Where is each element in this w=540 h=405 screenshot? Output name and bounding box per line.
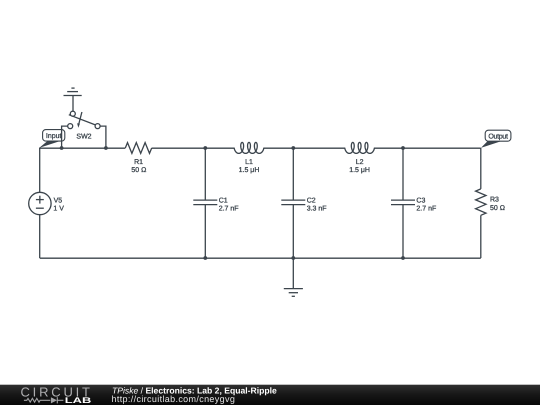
wire SW2 right throw to node xyxy=(100,126,106,148)
svg-text:L2: L2 xyxy=(356,159,364,166)
junction node C1 bottom xyxy=(203,256,207,260)
CircuitLab logo wordmark LAB xyxy=(65,396,92,405)
wire V5 top lead xyxy=(39,148,41,192)
CircuitLab logo resistor-diode glyph xyxy=(24,397,64,403)
svg-text:C1: C1 xyxy=(219,197,228,204)
wire R3 top lead xyxy=(480,148,482,189)
junction node C2 bottom xyxy=(291,256,295,260)
svg-text:R1: R1 xyxy=(134,159,143,166)
svg-text:L1: L1 xyxy=(245,159,253,166)
junction node C3 top xyxy=(401,146,405,150)
wire top rail: R1 to L1 xyxy=(152,147,235,149)
voltage source V5 xyxy=(29,192,65,214)
wire top rail: source node to R1 xyxy=(39,147,125,149)
svg-text:1.5 μH: 1.5 μH xyxy=(349,167,370,174)
svg-text:2.7 nF: 2.7 nF xyxy=(219,206,239,213)
svg-text:50 Ω: 50 Ω xyxy=(490,205,505,212)
capacitor C3 xyxy=(391,197,436,212)
svg-text:1 V: 1 V xyxy=(53,206,64,213)
ground (top, at SW2) xyxy=(64,88,82,111)
svg-text:Input: Input xyxy=(46,133,62,140)
wire top rail: L1 to L2 xyxy=(263,147,345,149)
footer url text xyxy=(112,394,236,404)
svg-text:R3: R3 xyxy=(490,197,499,204)
wire top rail: L2 to output node xyxy=(374,147,481,149)
svg-text:C2: C2 xyxy=(307,197,316,204)
svg-text:V5: V5 xyxy=(54,197,63,204)
switch SW2 xyxy=(68,111,100,140)
wire bottom rail xyxy=(40,257,481,259)
inductor L1 xyxy=(234,142,264,174)
wire C3 bottom lead xyxy=(402,205,404,258)
junction node C3 bottom xyxy=(401,256,405,260)
svg-text:50 Ω: 50 Ω xyxy=(131,167,146,174)
wire C3 top lead xyxy=(402,148,404,200)
footer bar xyxy=(0,385,540,405)
svg-text:LAB: LAB xyxy=(65,396,92,405)
junction node C1 top xyxy=(203,146,207,150)
node Output flag xyxy=(481,130,511,148)
resistor R3 xyxy=(476,189,505,215)
wire C1 bottom lead xyxy=(204,205,206,258)
node Input flag xyxy=(39,130,65,148)
svg-text:http://circuitlab.com/cneygvg: http://circuitlab.com/cneygvg xyxy=(112,394,236,404)
svg-text:3.3 nF: 3.3 nF xyxy=(307,206,327,213)
junction node C2 top xyxy=(291,146,295,150)
svg-text:Output: Output xyxy=(488,133,508,140)
capacitor C1 xyxy=(193,197,238,212)
junction node at SW2 left throw xyxy=(60,146,64,150)
wire C2 top lead xyxy=(292,148,294,200)
svg-text:SW2: SW2 xyxy=(76,134,91,141)
inductor L2 xyxy=(345,142,375,174)
wire SW2 left throw to node xyxy=(62,126,68,148)
wire C2 bottom lead xyxy=(292,205,294,258)
svg-text:1.5 μH: 1.5 μH xyxy=(239,167,260,174)
wire V5 bottom lead xyxy=(39,215,41,258)
svg-text:C3: C3 xyxy=(416,197,425,204)
resistor R1 xyxy=(125,143,151,175)
svg-text:2.7 nF: 2.7 nF xyxy=(416,206,436,213)
footer title text xyxy=(112,385,277,395)
ground (bottom) xyxy=(284,258,303,296)
capacitor C2 xyxy=(281,197,326,212)
wire R3 bottom lead xyxy=(480,215,482,258)
CircuitLab logo wordmark CIRCUIT xyxy=(21,384,91,399)
wire C1 top lead xyxy=(204,148,206,200)
junction node at SW2 right throw xyxy=(104,146,108,150)
